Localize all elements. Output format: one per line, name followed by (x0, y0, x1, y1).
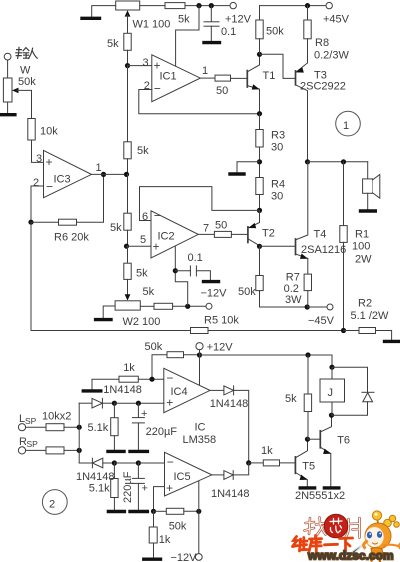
circled 2 (42, 490, 67, 515)
wire ground tap (237, 162, 260, 173)
svg-text:50k: 50k (238, 286, 256, 298)
node (257, 244, 262, 249)
resistor 5.1k upper (113, 403, 115, 418)
svg-text:50k: 50k (266, 26, 284, 38)
svg-text:+: + (141, 408, 147, 420)
ground (130, 510, 147, 513)
svg-text:−: − (154, 82, 161, 96)
potentiometer W2 100 (115, 301, 140, 310)
terminal +12V (230, 2, 236, 8)
+12V rail lower (200, 355, 333, 367)
svg-text:5k: 5k (178, 14, 190, 26)
svg-text:T6: T6 (337, 435, 350, 447)
svg-text:R3: R3 (271, 130, 285, 142)
svg-text:1: 1 (202, 65, 208, 77)
svg-text:100: 100 (352, 241, 370, 253)
svg-text:50k: 50k (169, 521, 187, 533)
label 输入 (input) drawn strokes (16, 47, 37, 58)
resistor 10k (28, 119, 35, 141)
svg-text:5k: 5k (107, 38, 119, 50)
op-amp IC1 (152, 55, 201, 102)
svg-text:0.1: 0.1 (188, 252, 203, 264)
wire + arrow onto W2 (127, 279, 129, 295)
wire to IC2 pin5 (127, 245, 152, 247)
transistor T2 (247, 227, 249, 243)
speaker (367, 162, 369, 179)
svg-text:IC: IC (195, 422, 206, 434)
svg-text:3W: 3W (285, 294, 302, 306)
svg-text:5k: 5k (137, 145, 149, 157)
wiper arrow W1 (125, 10, 131, 16)
svg-text:+45V: +45V (323, 14, 350, 26)
svg-text:50: 50 (216, 85, 228, 97)
transistor T3 2SC2922 (295, 71, 297, 85)
resistor 1k to ground (92, 379, 119, 389)
node (125, 63, 130, 68)
resistor 5k (307, 355, 309, 394)
svg-text:−: − (154, 209, 161, 223)
ground (108, 510, 124, 513)
terminal LSP (18, 424, 25, 431)
resistor 50 (214, 231, 231, 237)
wire drop to IC1 V+ (176, 6, 199, 67)
resistor 5k (horiz top) (165, 3, 185, 9)
resistor R6 20k (31, 221, 59, 223)
wire relay bottom to diode (332, 402, 368, 415)
resistor 5.1k lower (113, 463, 115, 479)
svg-text:1N4148: 1N4148 (211, 488, 250, 500)
wire IC2 pin6 feedback loop (140, 187, 260, 221)
svg-text:30: 30 (271, 191, 283, 203)
svg-text:1: 1 (343, 120, 349, 132)
ground (144, 558, 161, 561)
resistor R1 100 2W (343, 162, 345, 226)
svg-text:W2 100: W2 100 (123, 316, 161, 328)
resistor 50 (215, 75, 231, 81)
wire (127, 50, 129, 65)
terminal +45V (326, 2, 332, 8)
diode across relay (332, 367, 368, 392)
node (209, 3, 214, 8)
diode 1N4148 IC4 out (210, 389, 224, 391)
svg-text:R6 20k: R6 20k (54, 232, 89, 244)
svg-text:6: 6 (142, 211, 148, 223)
wire (7, 60, 9, 78)
svg-text:T1: T1 (263, 70, 276, 82)
input terminal 输入 (4, 53, 11, 60)
diode 1N4148 upper (79, 402, 92, 404)
svg-text:3: 3 (36, 153, 42, 165)
node (257, 52, 262, 57)
node (149, 377, 154, 382)
resistor 50k feedback IC4 (167, 352, 184, 358)
svg-text:2: 2 (49, 499, 55, 511)
svg-text:1k: 1k (261, 445, 273, 457)
capacitor 0.1 (175, 270, 190, 272)
svg-text:5: 5 (140, 234, 146, 246)
resistor R5 10k (191, 328, 209, 334)
svg-text:3: 3 (143, 57, 149, 69)
svg-text:R8: R8 (315, 37, 329, 49)
ground (204, 41, 220, 44)
ground (204, 280, 219, 283)
wire (32, 140, 44, 162)
svg-text:1N4148: 1N4148 (76, 471, 115, 483)
node (246, 460, 251, 465)
svg-text:IC4: IC4 (171, 386, 188, 398)
node IC3 out (101, 172, 106, 177)
ground (230, 172, 244, 175)
svg-text:R5 10k: R5 10k (204, 315, 239, 327)
svg-text:0.1: 0.1 (221, 26, 236, 38)
ground (300, 486, 314, 489)
bottom rail (31, 330, 191, 332)
wire IC2 V- (175, 247, 187, 307)
svg-text:LM358: LM358 (183, 434, 217, 446)
wire (127, 66, 129, 142)
svg-text:J: J (328, 387, 334, 399)
capacitor 220uF upper (137, 403, 139, 417)
svg-text:R1: R1 (355, 229, 369, 241)
node (305, 437, 310, 442)
resistor 1k to T5 (249, 462, 264, 464)
wire IC5 V- to -12V (198, 481, 200, 553)
op-amp IC2 (151, 211, 198, 258)
resistor R8 0.2/3W (307, 6, 309, 20)
capacitor 0.1 (210, 6, 212, 22)
svg-text:220µF: 220µF (122, 471, 134, 503)
svg-text:SP: SP (27, 439, 39, 449)
resistor R4 30 (256, 178, 263, 195)
wire (127, 230, 129, 246)
svg-text:2: 2 (33, 177, 39, 189)
wire W1 right to 5k (140, 5, 165, 7)
ground (83, 389, 101, 392)
svg-text:1N4148: 1N4148 (210, 398, 249, 410)
svg-text:5k: 5k (143, 286, 155, 298)
watermark 维库一下 red text strokes (293, 536, 353, 552)
ground (130, 450, 147, 453)
wire (140, 305, 154, 307)
node (257, 159, 262, 164)
node (257, 111, 262, 116)
wiper arrow of W (12, 88, 19, 94)
transistor T4 2SA1216 (295, 239, 297, 255)
wire +12V rail (185, 5, 230, 7)
potentiometer W1 100 (116, 1, 140, 10)
svg-text:7: 7 (203, 223, 209, 235)
svg-text:1k: 1k (123, 362, 135, 374)
wire left column (78, 403, 80, 463)
diode 1N4148 lower (points left) (79, 462, 92, 464)
svg-text:1: 1 (96, 162, 102, 174)
node (173, 268, 178, 273)
wire (127, 174, 129, 213)
resistor 50k (154, 510, 167, 512)
wire T1 collector to T3 base (260, 54, 296, 78)
svg-text:−: − (167, 455, 174, 469)
svg-text:T4: T4 (314, 229, 327, 241)
mascot (orange robot) (364, 511, 400, 562)
pen/stylus (351, 540, 370, 556)
svg-text:+: + (46, 155, 53, 169)
svg-text:SP: SP (25, 416, 37, 426)
svg-text:50k: 50k (18, 76, 36, 88)
wire (127, 246, 129, 263)
svg-text:2SC2922: 2SC2922 (300, 81, 346, 93)
svg-text:5.1k: 5.1k (88, 422, 109, 434)
column R3/R4 (259, 114, 261, 130)
svg-text:0.2/3W: 0.2/3W (314, 50, 349, 62)
wire to T4 base (260, 245, 296, 247)
terminal -12V (206, 303, 212, 309)
svg-text:+12V: +12V (207, 342, 234, 354)
wire IC4 + input (138, 402, 163, 404)
svg-text:220µF: 220µF (146, 426, 178, 438)
resistor 1k (153, 511, 155, 527)
svg-text:IC1: IC1 (160, 71, 177, 83)
svg-text:+12V: +12V (225, 14, 252, 26)
svg-text:5k: 5k (110, 222, 122, 234)
svg-text:IC3: IC3 (54, 174, 71, 186)
svg-text:−: − (166, 371, 173, 385)
ground (361, 209, 376, 212)
potentiometer W 50k (3, 78, 12, 102)
node (305, 304, 310, 309)
svg-text:−12V: −12V (201, 288, 228, 300)
terminal -45V (307, 306, 327, 308)
ground (96, 318, 111, 321)
node (185, 304, 190, 309)
resistor 5k (154, 303, 173, 309)
resistor 5k (top) (124, 33, 131, 50)
svg-text:T2: T2 (262, 228, 275, 240)
svg-text:10k: 10k (40, 126, 58, 138)
watermark 找芯片 outlined (305, 518, 360, 538)
capacitor 220uF lower (137, 463, 139, 478)
svg-text:50k: 50k (145, 341, 163, 353)
wire IC5 + input (154, 487, 165, 512)
svg-text:2W: 2W (355, 254, 372, 266)
svg-text:IC5: IC5 (174, 471, 191, 483)
wire (127, 159, 129, 175)
diode 1N4148 IC5 out (212, 474, 224, 476)
wire IC2 output (198, 233, 214, 235)
wire IC3 output (92, 173, 127, 175)
red circle with 芯 (324, 514, 348, 538)
ground (324, 486, 338, 489)
wire IC4 V+ (199, 355, 201, 385)
node (28, 220, 33, 225)
node (124, 172, 129, 177)
terminal RSP (18, 447, 25, 454)
op-amp IC3 (44, 150, 92, 197)
svg-text:R2: R2 (358, 298, 372, 310)
wire left drop to bottom rail (30, 222, 32, 330)
resistor 50k (259, 246, 261, 275)
svg-text:R4: R4 (271, 179, 285, 191)
op-amp IC5 (165, 452, 212, 496)
svg-text:W1 100: W1 100 (133, 19, 171, 31)
node (341, 328, 346, 333)
svg-text:50: 50 (215, 220, 227, 232)
resistor 5k (124, 263, 131, 279)
svg-text:2N5551x2: 2N5551x2 (295, 490, 345, 502)
svg-text:−12V: −12V (171, 552, 198, 562)
svg-text:R7: R7 (286, 272, 300, 284)
+45V rail (260, 5, 327, 7)
wire to T6 base (308, 438, 321, 440)
resistor 50k (259, 6, 261, 20)
resistor R3 30 (256, 130, 263, 148)
resistor 5k (124, 142, 131, 159)
wire to IC1 pin3 (128, 65, 152, 67)
svg-text:5.1k: 5.1k (89, 483, 110, 495)
ground (1, 113, 15, 116)
svg-text:−: − (46, 180, 53, 194)
ground (385, 340, 400, 343)
svg-text:5k: 5k (285, 393, 297, 405)
node (196, 3, 201, 8)
circled 1 (336, 111, 361, 136)
svg-text:www.dzsc.com: www.dzsc.com (307, 549, 394, 562)
ground (82, 17, 100, 20)
resistor R7 0.2 3W (307, 258, 309, 274)
transistor T6 (319, 431, 321, 448)
terminal +12V (196, 343, 203, 350)
svg-text:2: 2 (144, 80, 150, 92)
transistor T1 (246, 71, 248, 87)
svg-text:W: W (20, 65, 31, 77)
ground (108, 450, 124, 453)
svg-text:+: + (166, 481, 173, 495)
node (124, 244, 129, 249)
transistor T5 (294, 457, 296, 473)
relay J (331, 367, 333, 379)
op-amp IC4 (164, 368, 210, 412)
resistor 10k (46, 424, 64, 431)
svg-text:1k: 1k (159, 534, 171, 546)
svg-text:5.1 /2W: 5.1 /2W (351, 310, 390, 322)
resistor 10k (46, 447, 64, 454)
svg-text:T5: T5 (302, 461, 315, 473)
output node line to speaker (305, 159, 310, 164)
wire IC1 output (200, 77, 215, 79)
svg-text:10kx2: 10kx2 (42, 411, 71, 423)
node (197, 352, 202, 357)
svg-text:+: + (142, 483, 148, 495)
wire W2 left to ground (103, 306, 115, 318)
svg-text:IC2: IC2 (158, 231, 175, 243)
svg-text:2SA1216: 2SA1216 (301, 244, 346, 256)
node (257, 208, 262, 213)
wire pin2 IC1 feedback (139, 90, 260, 114)
svg-text:−45V: −45V (308, 315, 335, 327)
terminal -12V (195, 554, 202, 561)
svg-text:1N4148: 1N4148 (103, 384, 142, 396)
wire (92, 6, 116, 17)
svg-text:5k: 5k (136, 268, 148, 280)
svg-text:30: 30 (271, 142, 283, 154)
node (329, 413, 334, 418)
resistor 5k (124, 213, 131, 230)
wire pin2 IC3 (31, 186, 44, 222)
resistor R2 5.1/2W (344, 330, 360, 332)
